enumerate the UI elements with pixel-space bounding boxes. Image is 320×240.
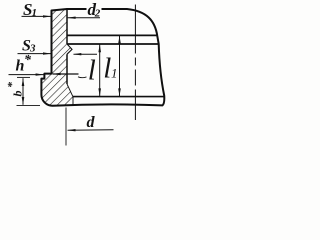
dimension b ticks (17, 76, 30, 78)
svg-text:1: 1 (32, 7, 38, 19)
leader S1 (22, 15, 52, 17)
svg-text:1: 1 (111, 66, 118, 81)
pipe outer line (67, 34, 158, 36)
svg-text:*: * (24, 53, 32, 68)
inner bottom line (73, 96, 164, 98)
dimension b line (22, 78, 24, 105)
body section (hatched wall + foot) (41, 9, 73, 106)
leader d (68, 129, 114, 132)
leader h (9, 74, 44, 76)
svg-text:*: * (5, 81, 19, 88)
centerline (134, 5, 136, 121)
wavy tail (78, 76, 87, 79)
wall right edge lower (66, 54, 68, 84)
inner arrow at notch (74, 53, 98, 55)
label d2 (87, 3, 102, 15)
svg-text:d: d (87, 114, 96, 131)
inner arrow at wall left edge (53, 73, 79, 75)
body outer contour (41, 9, 164, 106)
svg-text:b: b (11, 91, 25, 97)
socket mouth notch (67, 44, 72, 54)
leader d2 (68, 17, 100, 19)
d extension line (65, 108, 67, 146)
label b* (rotated) (5, 81, 25, 97)
wall right edge upper (66, 9, 68, 44)
dimension l (99, 45, 101, 97)
svg-text:l: l (88, 54, 96, 86)
leader S3 (18, 53, 52, 55)
bore line (67, 43, 159, 45)
dimension l1 (119, 36, 121, 97)
foot ledge (67, 84, 73, 105)
